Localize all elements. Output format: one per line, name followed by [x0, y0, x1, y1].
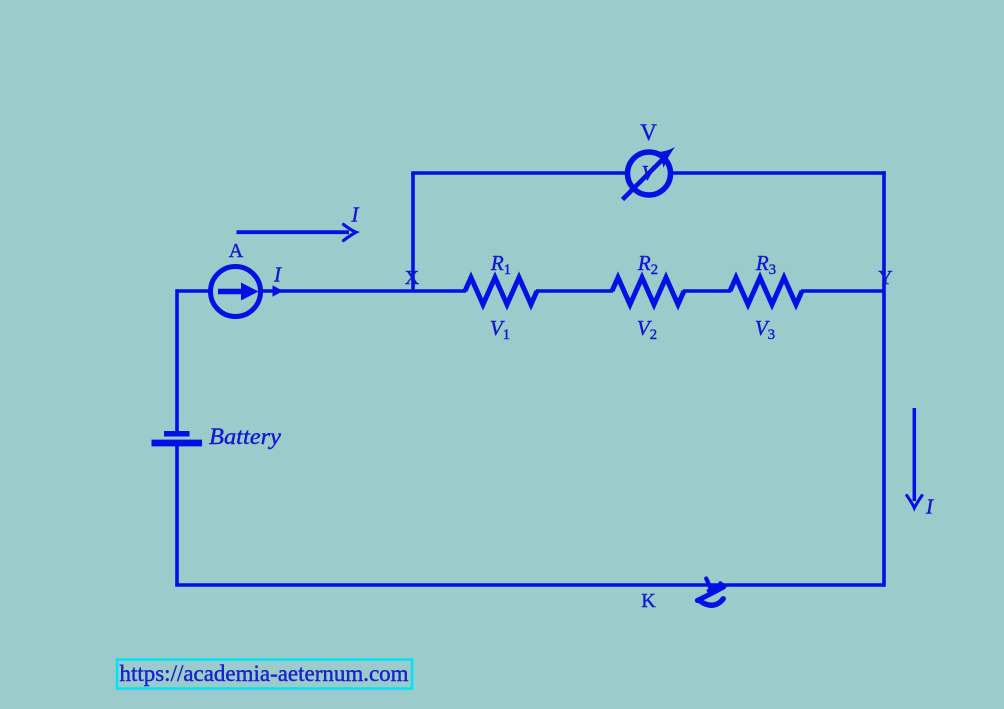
- svg-text:K: K: [641, 590, 656, 612]
- current direction arrowhead on wire right of ammeter: [273, 285, 284, 296]
- svg-text:I: I: [273, 263, 282, 287]
- svg-text:R2: R2: [637, 251, 658, 278]
- voltmeter needle diagonal line: [623, 160, 663, 200]
- ammeter internal arrow shaft: [218, 289, 243, 295]
- ammeter internal arrow head: [241, 283, 259, 301]
- svg-text:Y: Y: [878, 267, 892, 289]
- wire: left vertical, battery bottom plate down to bottom corner: [175, 446, 179, 585]
- ammeter A1 circle: [211, 267, 261, 317]
- current arrow on right side, shaft: [913, 408, 917, 501]
- svg-text:V: V: [642, 161, 657, 185]
- resistor R1 zigzag: [465, 278, 537, 305]
- wire: vertical connector X node to voltmeter branch: [411, 173, 415, 291]
- voltmeter needle arrowhead: [655, 147, 676, 168]
- switch K symbol: [697, 579, 724, 606]
- voltmeter V1 circle: [628, 152, 671, 195]
- battery top plate (short): [164, 431, 190, 437]
- wire: top horizontal, voltmeter right terminal to right corner: [671, 171, 886, 175]
- wire: main row, R1 to R2: [536, 289, 613, 293]
- svg-text:V3: V3: [755, 316, 775, 343]
- svg-text:A: A: [229, 240, 244, 262]
- svg-text:Battery: Battery: [209, 424, 282, 449]
- svg-text:V2: V2: [637, 316, 657, 343]
- svg-text:V1: V1: [490, 316, 510, 343]
- svg-text:I: I: [351, 203, 360, 227]
- wire: left vertical, ammeter level down to battery top plate: [175, 289, 179, 431]
- svg-text:R3: R3: [755, 251, 776, 278]
- resistor R3 zigzag: [730, 278, 802, 305]
- wire: right vertical side: [882, 171, 886, 587]
- resistor R2 zigzag: [612, 278, 684, 305]
- svg-text:R1: R1: [490, 251, 511, 278]
- website link box: [117, 660, 412, 689]
- wire: bottom horizontal: [175, 583, 884, 587]
- current arrow on right side, head: [907, 496, 922, 509]
- svg-text:V: V: [640, 120, 657, 145]
- wire: main row, R3 to Y node: [801, 289, 884, 293]
- svg-text:I: I: [925, 495, 934, 519]
- wire: top horizontal, X branch to voltmeter left terminal: [411, 171, 627, 175]
- current arrow above ammeter, head: [344, 225, 357, 241]
- current arrow above ammeter, shaft: [237, 230, 350, 234]
- svg-text:https://academia-aeternum.com: https://academia-aeternum.com: [120, 661, 409, 686]
- wire: main row, R2 to R3: [683, 289, 731, 293]
- wire: main row, left corner to ammeter: [177, 289, 211, 293]
- svg-text:X: X: [405, 267, 420, 289]
- battery bottom plate (long): [152, 440, 203, 447]
- wire: main row, ammeter to resistor R1: [260, 289, 466, 293]
